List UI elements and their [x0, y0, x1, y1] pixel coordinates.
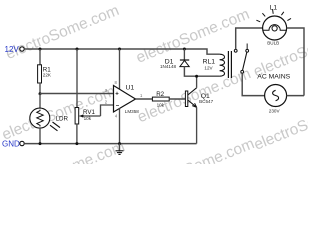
wire Q1 collector up — [196, 76, 198, 88]
svg-text:+: + — [115, 91, 119, 97]
relay contact NO to bulb — [234, 49, 237, 52]
ground symbol — [116, 144, 124, 155]
relay coil RL1 12V — [203, 51, 232, 78]
node junction LDR/GND rail — [39, 142, 42, 145]
node GND terminal — [2, 140, 24, 149]
potentiometer RV1 10k — [75, 108, 100, 125]
node junction R1/rail — [39, 48, 42, 51]
svg-text:R2: R2 — [156, 91, 164, 98]
svg-text:12V: 12V — [5, 45, 20, 54]
wire U1 output to R2 — [136, 98, 153, 100]
node junction D1/rail — [183, 48, 186, 51]
node junction collector/coil bottom — [195, 75, 198, 78]
wire LDR bottom lead — [39, 128, 41, 144]
svg-text:AC MAINS: AC MAINS — [257, 74, 290, 81]
node A junction R1/LDR/pin3 — [39, 92, 42, 95]
svg-text:LM358: LM358 — [125, 109, 139, 114]
wire U1 pin4 to ground rail — [119, 108, 121, 143]
svg-text:10k: 10k — [84, 116, 92, 121]
AC source V1 AC MAINS — [257, 74, 290, 114]
node 12V terminal — [5, 45, 25, 54]
diode D1 1N4148 — [160, 58, 189, 69]
wire AC source right — [287, 95, 304, 97]
resistor R2 10k — [152, 91, 169, 107]
wire RV1 bottom lead — [76, 124, 78, 144]
wire RV1 wiper to U1 pin2 — [101, 105, 114, 116]
svg-text:BC547: BC547 — [199, 99, 213, 104]
wire node A to U1 pin3 — [40, 93, 114, 95]
svg-text:RV1: RV1 — [83, 109, 95, 116]
wire U1 pin8 from rail — [119, 49, 121, 89]
wire LDR top lead — [39, 94, 41, 109]
op-amp U1 LM358 — [105, 80, 143, 118]
photoresistor LDR — [30, 108, 69, 131]
svg-text:1N4148: 1N4148 — [160, 64, 177, 69]
svg-text:BULB: BULB — [267, 40, 279, 45]
svg-text:RL1: RL1 — [203, 59, 216, 66]
wire GND rail — [24, 143, 196, 145]
wire +12V rail — [24, 49, 219, 54]
node junction U1 pin8/rail — [118, 48, 121, 51]
svg-text:12V: 12V — [204, 66, 213, 71]
wire R1 top lead — [39, 49, 41, 65]
svg-text:GND: GND — [2, 140, 20, 149]
svg-text:22K: 22K — [43, 73, 52, 78]
wire bulb right to rail — [287, 28, 304, 96]
svg-text:230V: 230V — [269, 109, 281, 114]
resistor R1 22K — [38, 65, 52, 83]
svg-text:L1: L1 — [270, 5, 278, 12]
node junction RV1/rail — [76, 48, 79, 51]
wire R1 bottom to node A — [39, 83, 41, 94]
wire D1 top lead from rail — [183, 49, 185, 60]
svg-text:10k: 10k — [157, 102, 165, 107]
wire D1 anode to coil bottom — [184, 67, 219, 77]
wire RV1 top lead from rail — [76, 49, 78, 108]
relay switch blade — [243, 52, 247, 70]
svg-text:U1: U1 — [126, 85, 135, 92]
node junction pin4/GND rail — [118, 142, 121, 145]
transistor Q1 BC547 — [185, 88, 213, 108]
wire common to AC source — [242, 73, 264, 95]
node junction RV1/GND rail — [75, 142, 78, 145]
relay contact NC stub — [246, 44, 249, 53]
wire R2 to Q1 base — [169, 98, 185, 100]
relay common contact — [241, 70, 244, 73]
wire bulb left to contact — [236, 28, 263, 49]
lamp L1 BULB — [256, 5, 291, 46]
wire Q1 emitter down — [196, 107, 198, 143]
svg-text:LDR: LDR — [56, 115, 69, 122]
